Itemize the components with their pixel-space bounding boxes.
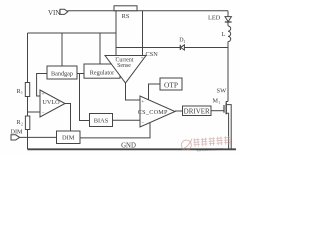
svg-text:Sense: Sense (117, 63, 131, 69)
wire SW vertical (227, 42, 229, 102)
svg-text:1: 1 (184, 40, 186, 44)
svg-text:DRIVER: DRIVER (184, 107, 210, 115)
svg-text:SW: SW (217, 87, 228, 94)
svg-text:BIAS: BIAS (94, 118, 109, 125)
svg-text:+: + (42, 93, 45, 98)
svg-text:UVLO: UVLO (42, 99, 60, 106)
wire divider middle (27, 97, 29, 117)
wire BIAS to comparator minus (113, 119, 141, 121)
svg-text:LED: LED (208, 15, 221, 22)
svg-text:1: 1 (21, 91, 23, 95)
svg-text:www.elecfans.com: www.elecfans.com (196, 147, 223, 153)
svg-text:CSN: CSN (146, 51, 159, 58)
LED D_LED (225, 17, 231, 22)
wire bias feed (80, 74, 90, 121)
wire UVLO output to DIM block (65, 104, 71, 132)
inductor L (228, 26, 231, 42)
wire current sense output to comparator plus (126, 83, 141, 100)
resistor R2 (25, 116, 29, 130)
ground rail (28, 148, 237, 150)
wire divider top (27, 33, 29, 83)
resistor R1 (25, 83, 29, 97)
wire diode to inductor (184, 47, 228, 49)
wire bandgap to regulator (77, 73, 84, 75)
svg-text:1: 1 (218, 101, 220, 105)
svg-text:+: + (141, 100, 144, 105)
wire source lead to ground (226, 113, 228, 148)
wire divider tap to UVLO minus (28, 111, 41, 113)
svg-text:OTP: OTP (164, 80, 178, 89)
svg-text:−: − (42, 111, 45, 116)
block Bandgap (47, 66, 77, 79)
transistor M1 channel bar (225, 103, 227, 115)
svg-text:−: − (141, 121, 144, 126)
resistor RS (114, 6, 137, 11)
svg-text:2: 2 (21, 122, 23, 126)
wire bandgap to UVLO plus (37, 74, 47, 97)
pin DIM (11, 135, 20, 140)
svg-text:GND: GND (121, 143, 136, 150)
svg-text:+: + (141, 55, 144, 60)
wire RS left vertical (115, 11, 117, 56)
block OTP (160, 78, 182, 90)
svg-text:RS: RS (122, 13, 130, 20)
svg-text:−: − (115, 55, 118, 60)
diode D1 (181, 45, 185, 50)
block Regulator (84, 64, 120, 78)
svg-text:Bandgap: Bandgap (51, 71, 73, 78)
block DIM (57, 131, 81, 144)
wire CSN node horizontal (116, 47, 180, 49)
pin VIN (60, 9, 68, 14)
wire bandgap supply (61, 33, 63, 66)
wire RS right vertical (CSN) (142, 11, 144, 56)
svg-text:L: L (222, 31, 226, 38)
wire OTP tap (149, 84, 161, 100)
wire divider bottom to ground (27, 130, 29, 150)
svg-text:DIM: DIM (62, 135, 75, 142)
svg-text:Regulator: Regulator (90, 70, 114, 77)
wire drain branch to ground (226, 105, 231, 149)
svg-text:CS_COMP: CS_COMP (138, 109, 168, 116)
wire DIM block output (80, 123, 150, 138)
watermark logo and text (181, 136, 231, 154)
wire DIM pin to DIM block (20, 136, 57, 138)
comparator CS_COMP (140, 96, 175, 127)
transistor M1 gate bar (223, 105, 225, 113)
op-amp Current Sense (105, 56, 146, 84)
wire drain jog (226, 102, 228, 104)
wire internal VIN rail (28, 32, 117, 34)
wire comparator to driver (175, 110, 183, 112)
comparator UVLO (40, 90, 65, 117)
wire regulator supply (99, 33, 101, 64)
block BIAS (90, 114, 113, 127)
svg-text:DIM: DIM (11, 128, 24, 135)
wire VIN top rail (68, 10, 229, 12)
svg-text:VIN: VIN (48, 9, 60, 17)
block DRIVER (183, 106, 212, 116)
wire driver to gate (211, 110, 224, 112)
